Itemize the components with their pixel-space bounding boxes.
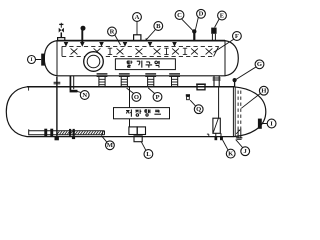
spray X mark x=74 bbox=[71, 48, 78, 54]
spray arrow x=150 bbox=[148, 42, 153, 47]
storage right head seam double bbox=[233, 87, 235, 137]
storage left head weld tick bbox=[28, 87, 30, 91]
svg-text:C: C bbox=[177, 12, 182, 19]
leader N bbox=[77, 91, 81, 92]
outlet L twin boxes bbox=[129, 127, 146, 135]
fill pipe bbox=[129, 87, 131, 127]
spray X mark x=175.5 bbox=[172, 48, 179, 54]
sparger hatching bbox=[57, 131, 104, 134]
svg-text:H: H bbox=[261, 88, 267, 95]
tray band right edge bbox=[214, 46, 219, 56]
connecting spool x=150.7 bbox=[145, 74, 156, 87]
leader J bbox=[236, 140, 243, 148]
deaeration zone label box bbox=[115, 59, 175, 70]
label K bbox=[226, 149, 235, 158]
label M bbox=[106, 141, 115, 150]
overflow internal pipe bbox=[218, 87, 220, 118]
white background bbox=[0, 0, 300, 163]
svg-text:K: K bbox=[228, 151, 234, 158]
bracket foot tick bbox=[72, 137, 75, 139]
spray X mark x=120 bbox=[117, 48, 124, 54]
drain J flange bbox=[236, 138, 243, 140]
spray stem x=166.5 bbox=[164, 48, 168, 54]
spray X mark x=97 bbox=[94, 48, 101, 54]
svg-text:G: G bbox=[257, 61, 262, 68]
leader Q bbox=[190, 100, 195, 106]
spray arrow x=125 bbox=[123, 42, 128, 47]
label C bbox=[175, 11, 184, 20]
storage right head bbox=[234, 87, 266, 137]
leader I right bbox=[262, 123, 267, 125]
label N bbox=[80, 91, 89, 100]
manway circle outer bbox=[84, 52, 104, 72]
spray stem x=185 bbox=[183, 48, 187, 54]
spray arrow x=101.5 bbox=[99, 42, 104, 47]
leader D bbox=[195, 17, 198, 29]
deaerator right head seam bbox=[224, 41, 226, 76]
leader G bbox=[236, 67, 256, 80]
storage tank text 저장탱크 bbox=[126, 110, 161, 117]
svg-text:O: O bbox=[134, 94, 139, 101]
storage shell bottom line bbox=[27, 136, 234, 138]
storage tank label box bbox=[114, 108, 170, 119]
vent stub G dot bbox=[233, 78, 237, 87]
standpipe outlet stubs bbox=[216, 133, 221, 136]
sparger flange pair 2 (black) bbox=[69, 129, 75, 136]
spray X mark x=194.5 bbox=[191, 48, 198, 54]
svg-text:M: M bbox=[107, 142, 114, 149]
leader L bbox=[141, 142, 146, 151]
svg-text:B: B bbox=[156, 23, 161, 30]
tray band left edge bbox=[61, 46, 63, 56]
svg-text:E: E bbox=[220, 12, 225, 19]
leader E bbox=[215, 19, 220, 28]
left inlet leader bbox=[36, 59, 42, 61]
label G bbox=[255, 60, 264, 69]
nozzle box under A bbox=[134, 35, 141, 41]
svg-text:I: I bbox=[30, 57, 32, 63]
storage left head bbox=[6, 87, 27, 137]
label D bbox=[197, 9, 206, 18]
label H bbox=[259, 86, 268, 95]
side nozzle flange I (black) bbox=[258, 119, 262, 129]
label A bbox=[133, 13, 142, 22]
connecting spool x=124.3 bbox=[119, 74, 130, 87]
left support bracket bbox=[70, 76, 78, 93]
label Q bbox=[194, 105, 203, 114]
sparger pipe body bbox=[29, 129, 105, 135]
deaerator shell bottom line bbox=[57, 75, 225, 77]
spray X mark x=139 bbox=[136, 48, 143, 54]
label F bbox=[233, 32, 242, 41]
relief pipe P1 bbox=[60, 32, 62, 37]
relief valve on P1 bbox=[59, 23, 64, 33]
svg-text:R: R bbox=[110, 28, 115, 35]
storage manway bbox=[196, 84, 206, 90]
label P bbox=[153, 93, 162, 102]
svg-text:A: A bbox=[135, 14, 140, 21]
vent pipe P2 ball top bbox=[81, 26, 85, 30]
downcomer foot block bbox=[55, 137, 59, 140]
label R bbox=[108, 27, 117, 36]
connecting spool x=102 bbox=[97, 74, 108, 87]
stub nozzle at B bbox=[145, 38, 147, 40]
tray band top dashed bbox=[62, 45, 219, 47]
svg-text:Q: Q bbox=[196, 106, 201, 113]
leader M bbox=[101, 136, 107, 143]
deaerator shell top line bbox=[57, 40, 225, 42]
downcomer pipe bbox=[56, 77, 58, 137]
spray arrow x=82.3 bbox=[80, 42, 85, 47]
overflow spool right bbox=[213, 76, 221, 87]
svg-text:D: D bbox=[199, 11, 204, 18]
nozzle junction CD bbox=[192, 29, 196, 40]
label E bbox=[218, 11, 227, 20]
leader H bbox=[241, 93, 260, 108]
leader F bbox=[214, 39, 234, 52]
connecting spool x=174.6 bbox=[169, 74, 180, 87]
tray band bottom dashed bbox=[62, 55, 214, 57]
level nozzle Q (black cap) bbox=[186, 94, 190, 100]
spray X mark x=157 bbox=[154, 48, 161, 54]
svg-text:L: L bbox=[146, 151, 151, 158]
drain J internal arrow bbox=[236, 129, 240, 133]
label I right bbox=[267, 119, 276, 128]
deaeration zone text 탈기구역 bbox=[127, 61, 159, 68]
sparger flange pair 1 (black) bbox=[44, 129, 53, 137]
deaerator left head bbox=[44, 41, 57, 76]
leader K bbox=[223, 140, 229, 150]
manway circle inner bbox=[87, 55, 100, 68]
svg-text:P: P bbox=[155, 94, 159, 101]
leader P bbox=[148, 88, 155, 94]
spray arrow x=66 bbox=[64, 42, 69, 47]
vent pipe stub pad bbox=[58, 38, 65, 41]
overflow standpipe bbox=[213, 118, 220, 133]
spray X mark x=209 bbox=[206, 48, 213, 54]
label O bbox=[132, 93, 141, 102]
deaerator right head bbox=[225, 41, 238, 76]
label I left bbox=[28, 56, 36, 64]
spray stem x=110 bbox=[108, 48, 112, 54]
svg-text:N: N bbox=[82, 92, 87, 99]
spray arrow x=174.5 bbox=[172, 42, 177, 47]
left inlet flange (black) bbox=[41, 54, 45, 66]
leader C bbox=[182, 19, 193, 30]
storage head baffle dashed bbox=[238, 91, 241, 129]
downcomer flange ticks bbox=[54, 82, 61, 84]
label B bbox=[154, 22, 163, 31]
leader A bbox=[136, 22, 138, 35]
storage shell top line bbox=[27, 86, 234, 88]
outlet K flanges (black) bbox=[215, 137, 223, 140]
label L bbox=[144, 150, 153, 159]
bottom tick near standpipe bbox=[207, 134, 209, 137]
drain pipe J bbox=[238, 128, 241, 137]
leader R bbox=[115, 35, 121, 45]
leader B bbox=[146, 30, 155, 40]
svg-text:I: I bbox=[270, 120, 273, 127]
leader O bbox=[127, 88, 134, 93]
deaerator left head seam bbox=[56, 41, 58, 76]
svg-text:F: F bbox=[235, 33, 239, 40]
outlet L lower box bbox=[134, 136, 142, 142]
label J bbox=[241, 147, 250, 156]
vent pipe P2 bbox=[81, 30, 83, 42]
steam nozzle E (black cap) bbox=[211, 28, 216, 41]
